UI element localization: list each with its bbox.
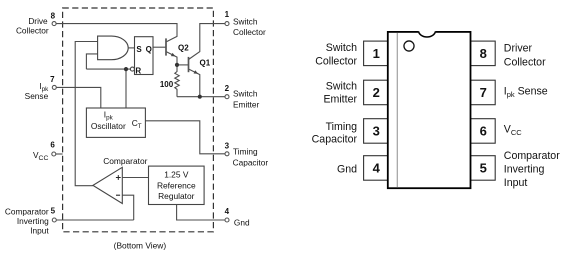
svg-text:5: 5 xyxy=(480,161,487,176)
svg-text:Gnd: Gnd xyxy=(234,217,250,227)
svg-text:6: 6 xyxy=(480,124,487,139)
svg-text:Switch: Switch xyxy=(326,80,357,92)
svg-text:8: 8 xyxy=(480,46,487,61)
svg-text:Oscillator: Oscillator xyxy=(91,121,126,131)
svg-text:Emitter: Emitter xyxy=(233,99,260,109)
svg-text:100: 100 xyxy=(160,80,174,89)
svg-text:Q2: Q2 xyxy=(178,43,189,52)
svg-text:Capacitor: Capacitor xyxy=(312,134,358,146)
svg-text:Comparator: Comparator xyxy=(504,150,560,162)
svg-text:Collector: Collector xyxy=(504,56,546,68)
svg-text:2: 2 xyxy=(225,84,230,93)
svg-text:1: 1 xyxy=(373,46,380,61)
svg-text:1.25 V: 1.25 V xyxy=(164,169,189,179)
svg-text:Regulator: Regulator xyxy=(158,191,195,201)
svg-text:R: R xyxy=(135,67,141,76)
svg-text:Input: Input xyxy=(30,226,49,236)
svg-text:S: S xyxy=(136,45,142,54)
svg-text:VCC: VCC xyxy=(33,150,48,162)
svg-text:Drive: Drive xyxy=(28,16,48,26)
svg-text:(Bottom View): (Bottom View) xyxy=(114,241,167,251)
svg-text:4: 4 xyxy=(373,161,381,176)
svg-text:3: 3 xyxy=(373,124,380,139)
svg-text:3: 3 xyxy=(225,141,230,150)
svg-text:Inverting: Inverting xyxy=(17,216,49,226)
svg-text:Driver: Driver xyxy=(504,43,533,55)
svg-text:Timing: Timing xyxy=(233,146,258,156)
svg-text:Ipk Sense: Ipk Sense xyxy=(504,85,548,99)
svg-text:Collector: Collector xyxy=(16,26,49,36)
svg-text:Timing: Timing xyxy=(326,121,358,133)
svg-text:Collector: Collector xyxy=(315,55,357,67)
svg-text:Capacitor: Capacitor xyxy=(233,157,269,167)
svg-text:Switch: Switch xyxy=(233,88,258,98)
svg-text:Q: Q xyxy=(146,45,152,54)
svg-text:Switch: Switch xyxy=(233,16,258,26)
svg-text:7: 7 xyxy=(480,85,487,100)
svg-text:Comparator: Comparator xyxy=(103,156,147,166)
svg-text:8: 8 xyxy=(51,11,56,20)
svg-text:1: 1 xyxy=(225,10,230,19)
svg-text:Emitter: Emitter xyxy=(323,94,357,106)
svg-text:Q1: Q1 xyxy=(200,58,211,67)
svg-text:2: 2 xyxy=(373,85,380,100)
svg-text:7: 7 xyxy=(50,75,55,84)
svg-text:Gnd: Gnd xyxy=(337,163,357,175)
svg-text:Switch: Switch xyxy=(326,42,357,54)
svg-text:6: 6 xyxy=(50,141,55,150)
svg-text:Collector: Collector xyxy=(233,27,266,37)
svg-text:4: 4 xyxy=(225,207,230,216)
svg-text:Reference: Reference xyxy=(157,180,196,190)
svg-text:Input: Input xyxy=(504,177,528,189)
svg-text:VCC: VCC xyxy=(504,124,522,138)
svg-text:Inverting: Inverting xyxy=(504,164,545,176)
svg-text:5: 5 xyxy=(51,207,56,216)
svg-text:Sense: Sense xyxy=(25,91,49,101)
